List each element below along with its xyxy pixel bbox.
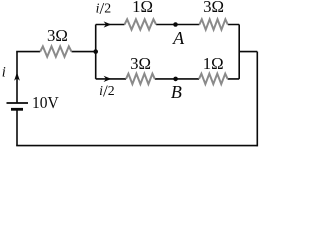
node B dot [173, 77, 178, 82]
svg-text:1Ω: 1Ω [203, 54, 224, 73]
wire top branch segments [96, 24, 240, 26]
arrow current i upward [14, 72, 20, 81]
resistor 3Ω top-right [199, 19, 227, 29]
wire inner right vertical [238, 25, 240, 79]
svg-text:3Ω: 3Ω [203, 0, 224, 16]
svg-text:1Ω: 1Ω [132, 0, 153, 16]
svg-text:A: A [172, 28, 185, 48]
wire exit to outer right [239, 51, 257, 53]
node junction dot [93, 49, 98, 54]
wire resistor to junction [72, 51, 96, 53]
svg-text:i/2: i/2 [96, 0, 112, 18]
resistor 1Ω bottom [199, 74, 228, 84]
svg-text:10V: 10V [32, 93, 59, 112]
battery 10V long plate [7, 102, 29, 104]
svg-text:3Ω: 3Ω [130, 54, 151, 73]
svg-text:3Ω: 3Ω [47, 26, 68, 45]
wire outer right vertical [256, 52, 258, 147]
resistor 1Ω top [125, 19, 157, 29]
svg-text:i/2: i/2 [99, 82, 115, 101]
wire left vertical battery-bottom to bottom wire [16, 109, 18, 145]
wire left vertical battery-top to main level [16, 52, 18, 103]
arrow i/2 top branch [104, 21, 112, 27]
arrow i/2 bottom branch [104, 76, 112, 82]
svg-text:B: B [171, 82, 182, 102]
svg-text:i: i [2, 65, 6, 81]
resistor 3Ω left [40, 46, 71, 56]
wire bottom return [16, 145, 257, 147]
wire bottom branch segments [96, 78, 240, 80]
wire main horizontal left [16, 51, 40, 53]
battery 10V short thick plate [11, 108, 23, 111]
node A dot [173, 22, 178, 27]
resistor 3Ω bottom [126, 74, 155, 84]
wire junction vertical [95, 25, 97, 79]
